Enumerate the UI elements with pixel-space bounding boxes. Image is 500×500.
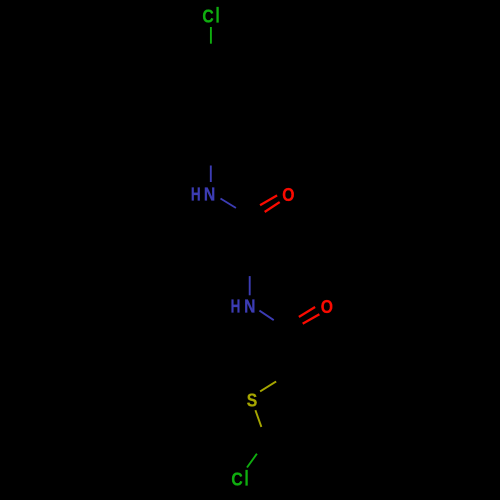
bond C5(thiophene)-Cl2, carbon-colored half (black) xyxy=(257,442,267,454)
chlorine label Cl2 (bottom) xyxy=(231,467,248,490)
double bond C2'=O2, carbon-colored halves (black) xyxy=(283,317,303,334)
bond N2-C2'(carbonyl), nitrogen-colored half xyxy=(259,311,273,321)
bond CH2-N2, carbon-colored half (black) xyxy=(249,257,251,276)
svg-text:l: l xyxy=(244,467,248,490)
svg-text:C: C xyxy=(231,468,242,490)
bond S1-C2(thiophene), sulfur-colored half xyxy=(260,381,276,391)
bond N1-C1'(carbonyl), nitrogen-colored half xyxy=(221,199,237,209)
svg-text:O: O xyxy=(282,184,294,206)
thiophene ring carbon bonds (black on black) xyxy=(267,371,318,448)
bond S1-C2(thiophene), carbon-colored half (black) xyxy=(276,371,292,381)
double bond C2'=O2, oxygen-colored halves xyxy=(299,307,320,324)
bond C1'-CH2 (black) xyxy=(250,218,252,258)
svg-text:C: C xyxy=(202,5,213,27)
bond C(aryl)-N1, nitrogen-colored half xyxy=(210,166,212,183)
svg-text:N: N xyxy=(204,183,215,205)
svg-text:H: H xyxy=(231,297,241,318)
bond Cl1-C(aryl), carbon-colored half (black) xyxy=(210,44,212,61)
double bond C1'=O1, oxygen-colored halves xyxy=(260,195,280,212)
bond S1-C5(thiophene), carbon-colored half (black) xyxy=(261,427,267,442)
amide nitrogen label HN1 xyxy=(191,183,215,205)
benzene ring (carbon-carbon bonds, black on black) xyxy=(173,61,248,148)
bond S1-C5(thiophene), sulfur-colored half xyxy=(255,410,261,427)
svg-text:H: H xyxy=(191,185,201,206)
svg-text:S: S xyxy=(247,389,257,411)
bond Cl1-C(aryl), chlorine-colored half xyxy=(210,27,212,44)
bond C(aryl)-N1, carbon-colored half (black) xyxy=(210,148,212,166)
svg-text:O: O xyxy=(321,296,333,318)
amide nitrogen label HN2 xyxy=(231,295,256,317)
bond N1-C1'(carbonyl), carbon-colored half (black) xyxy=(236,208,252,218)
bond C2'-C2(thiophene) (black) xyxy=(288,330,292,371)
double bond C1'=O1, carbon-colored halves (black) xyxy=(244,205,265,221)
bond C5(thiophene)-Cl2, chlorine-colored half xyxy=(247,454,257,468)
bond N2-C2'(carbonyl), carbon-colored half (black) xyxy=(274,320,288,330)
svg-text:l: l xyxy=(216,4,220,27)
bond CH2-N2, nitrogen-colored half xyxy=(249,276,251,295)
svg-text:N: N xyxy=(244,295,255,317)
chlorine label Cl1 (top) xyxy=(202,4,219,27)
